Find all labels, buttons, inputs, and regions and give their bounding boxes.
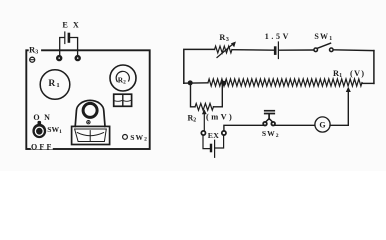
svg-text:(mV): (mV) — [206, 112, 234, 121]
svg-text:EX: EX — [62, 20, 83, 29]
svg-text:ON: ON — [33, 113, 54, 122]
svg-text:OFF: OFF — [31, 142, 54, 151]
svg-text:(V): (V) — [350, 69, 365, 78]
svg-text:G: G — [319, 121, 325, 130]
svg-text:1.5V: 1.5V — [265, 32, 291, 41]
svg-text:EX: EX — [208, 131, 220, 140]
